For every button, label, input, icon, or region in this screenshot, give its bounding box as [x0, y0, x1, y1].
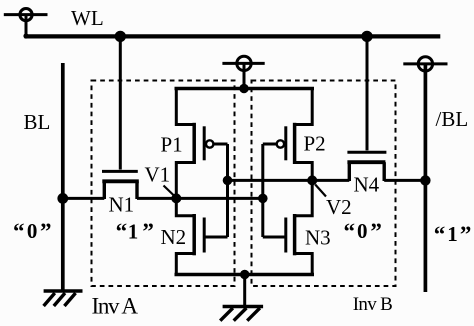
- svg-text:“: “: [344, 219, 356, 244]
- svg-text:0: 0: [357, 219, 368, 243]
- svg-text:N4: N4: [354, 173, 380, 197]
- svg-text:N3: N3: [305, 226, 331, 250]
- svg-text:WL: WL: [71, 6, 104, 30]
- svg-text:”: ”: [40, 219, 52, 244]
- svg-text:V1: V1: [145, 163, 171, 187]
- svg-text:Inv B: Inv B: [353, 294, 393, 315]
- svg-text:”: ”: [142, 219, 154, 244]
- svg-text:”: ”: [460, 222, 472, 247]
- svg-text:N2: N2: [161, 225, 187, 249]
- svg-text:1: 1: [128, 219, 139, 243]
- svg-text:P1: P1: [161, 133, 183, 157]
- svg-text:“: “: [13, 219, 25, 244]
- svg-text:P2: P2: [304, 132, 326, 156]
- svg-text:V2: V2: [326, 195, 352, 219]
- svg-text:/BL: /BL: [436, 107, 469, 131]
- svg-text:”: ”: [370, 219, 382, 244]
- svg-text:1: 1: [447, 222, 458, 246]
- svg-text:“: “: [116, 219, 128, 244]
- svg-text:N1: N1: [109, 193, 135, 217]
- svg-text:Inv A: Inv A: [92, 294, 139, 319]
- svg-text:BL: BL: [24, 110, 51, 134]
- svg-text:“: “: [434, 222, 446, 247]
- svg-text:0: 0: [27, 219, 38, 243]
